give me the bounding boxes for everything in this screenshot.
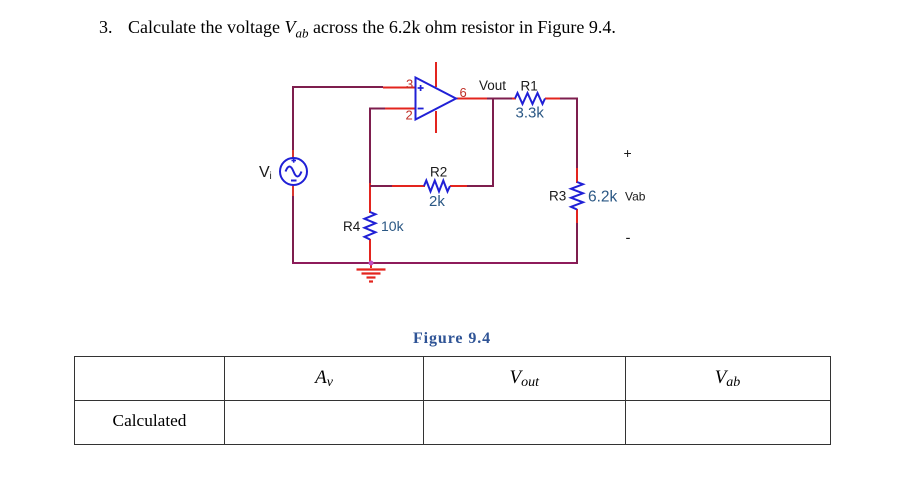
svg-text:R1: R1 <box>521 79 538 94</box>
svg-text:R2: R2 <box>430 165 447 180</box>
svg-text:3.3k: 3.3k <box>516 105 545 122</box>
svg-text:Vout: Vout <box>479 78 506 93</box>
svg-text:V: V <box>259 164 270 181</box>
svg-text:2: 2 <box>406 108 413 123</box>
svg-text:2k: 2k <box>429 193 445 210</box>
svg-text:Vab: Vab <box>625 190 646 204</box>
svg-text:3: 3 <box>406 77 413 92</box>
svg-text:i: i <box>270 171 272 182</box>
svg-text:6: 6 <box>460 85 467 100</box>
svg-text:10k: 10k <box>381 218 405 234</box>
svg-text:R4: R4 <box>343 219 361 234</box>
svg-text:R3: R3 <box>549 189 566 204</box>
svg-text:+: + <box>624 145 632 161</box>
svg-text:-: - <box>626 230 631 247</box>
svg-text:6.2k: 6.2k <box>588 189 618 206</box>
